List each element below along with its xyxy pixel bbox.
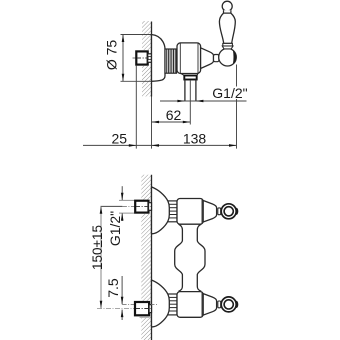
handle ring outer <box>221 204 236 219</box>
neck <box>218 208 221 215</box>
handle neck <box>214 55 219 62</box>
dia75 bottom extension <box>121 80 152 82</box>
fitting bottom (bottom drawing) <box>135 302 149 315</box>
7.5 dim <box>121 276 123 304</box>
handle top ball <box>222 1 232 11</box>
handle collar <box>223 43 233 46</box>
centerline through bottom fitting <box>136 308 151 310</box>
handle lever vase <box>219 13 235 43</box>
62 dim line <box>152 121 191 123</box>
escutcheon (side) <box>152 35 166 82</box>
svg-text:Ø 75: Ø 75 <box>104 40 120 71</box>
supply fitting F1 <box>136 51 147 64</box>
body axis centerline over bell <box>151 303 158 305</box>
escutcheon bell <box>152 187 170 234</box>
svg-text:62: 62 <box>166 107 182 123</box>
centerline through top fitting <box>136 205 151 207</box>
wall face line <box>151 22 153 97</box>
handle ring inner <box>224 207 233 216</box>
svg-text:25: 25 <box>112 131 128 147</box>
barrel <box>177 199 203 225</box>
cone <box>203 201 216 223</box>
centerline top fitting <box>101 205 123 207</box>
svg-text:G1/2": G1/2" <box>107 211 123 246</box>
wall hatch <box>142 21 152 97</box>
svg-text:138: 138 <box>183 131 207 147</box>
wall hatch bottom <box>141 175 151 340</box>
G1/2 dim bottom drawing <box>121 186 123 200</box>
G1/2 dim line <box>160 100 247 102</box>
outlet pipe <box>184 80 186 102</box>
threaded collar <box>165 49 177 73</box>
valve body barrel <box>177 43 201 74</box>
wall face extension line <box>151 97 153 149</box>
ext line 25 <box>135 66 137 149</box>
outlet collar <box>181 74 198 76</box>
cone to handle <box>201 48 214 69</box>
svg-text:G1/2": G1/2" <box>212 85 247 101</box>
fitting stub <box>148 54 152 63</box>
fitting top (bottom drawing) <box>135 201 148 213</box>
dia75 dim line <box>122 35 124 82</box>
fitting centerline <box>133 57 152 59</box>
bottom valve unit (copy of top unit) <box>152 280 239 327</box>
bottom dim line 25/138 <box>83 144 237 146</box>
label G1/2 top <box>212 87 246 100</box>
handle neck small <box>224 10 231 13</box>
svg-text:150±15: 150±15 <box>90 225 105 270</box>
threads <box>167 201 178 222</box>
wall face line bottom <box>151 175 153 340</box>
outlet nut <box>184 76 196 80</box>
centerline bottom fitting <box>97 308 151 310</box>
handle ring shade <box>235 208 239 215</box>
handle ball <box>219 48 237 66</box>
pipe centerline ext <box>189 80 191 125</box>
svg-text:7.5: 7.5 <box>105 278 121 298</box>
ext line 138 right <box>236 65 238 149</box>
150 dim line <box>100 206 102 308</box>
body column left edge <box>175 224 183 291</box>
wall fitting cutout <box>134 50 152 66</box>
centerline bottom body axis <box>122 303 150 305</box>
body column right edge <box>197 224 205 291</box>
dia75 top extension <box>121 34 152 36</box>
handle ball shade <box>233 50 236 64</box>
top unit <box>152 187 239 234</box>
